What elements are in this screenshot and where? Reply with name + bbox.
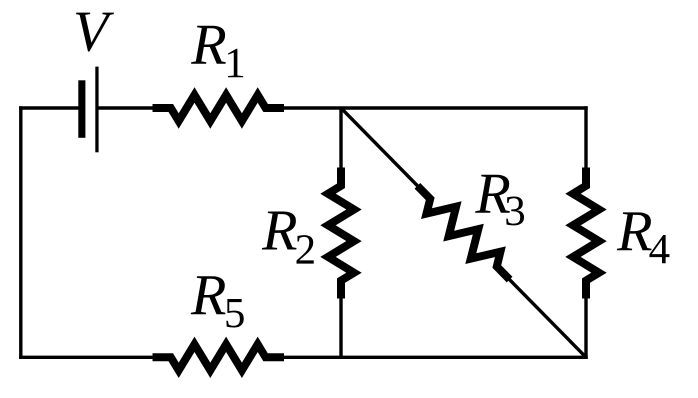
wire bottom-left segment xyxy=(19,356,157,359)
wire R4 bottom to bottom-right corner xyxy=(584,294,587,359)
resistor R5 body xyxy=(153,344,285,370)
wire battery to R1 xyxy=(97,106,157,109)
resistor R3 body (diagonal) xyxy=(417,186,509,280)
wire node to R2 top xyxy=(339,108,342,172)
label V xyxy=(76,13,114,52)
wire diagonal lower (R3 to bottom-right corner) xyxy=(495,265,586,358)
wire R2 bottom to bottom rail xyxy=(339,294,342,359)
resistor R2 body xyxy=(328,168,354,299)
resistor R1 body xyxy=(153,95,285,121)
battery V thick plate xyxy=(78,80,85,138)
label R1 xyxy=(191,26,243,77)
wire R1 to top-right corner xyxy=(281,106,588,109)
wire bottom R5 to bottom-right corner xyxy=(280,356,588,359)
wire left side vertical xyxy=(19,106,22,359)
battery V thin plate xyxy=(95,67,98,153)
label R5 xyxy=(191,276,244,327)
resistor R4 body xyxy=(573,168,599,299)
label R2 xyxy=(262,212,314,264)
wire top-right corner to R4 xyxy=(584,106,587,172)
wire diagonal upper (node to R3) xyxy=(341,108,432,201)
label R3 xyxy=(475,175,524,226)
wire top-left segment xyxy=(19,106,82,109)
label R4 xyxy=(617,212,670,263)
